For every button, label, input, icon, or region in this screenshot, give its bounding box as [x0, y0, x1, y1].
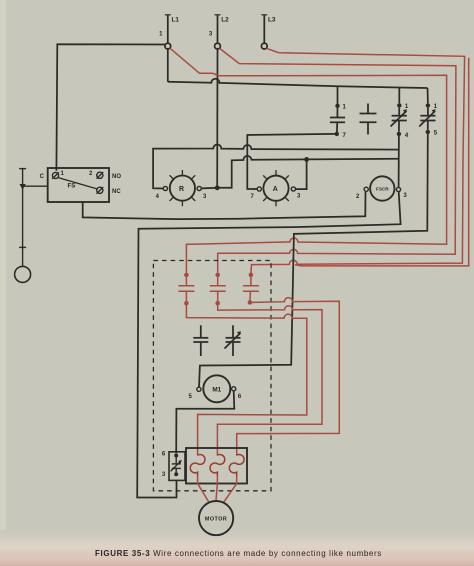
float bulb: [15, 266, 31, 282]
junction node R3-L2: [215, 185, 220, 190]
svg-text:M1: M1: [212, 386, 221, 393]
wire red from L3 to right rail 3: [251, 48, 465, 273]
wire A pin 7 up and over to capacitor pin 7: [247, 134, 336, 189]
junction node A3: [304, 157, 309, 162]
svg-text:FSCR: FSCR: [376, 186, 389, 191]
svg-text:A: A: [273, 186, 278, 193]
wire A pin 3 up to 3-bus: [296, 159, 307, 189]
wire FS bottom to FSCR pin 2: [83, 192, 366, 219]
wire FSCR pin 3 down-left to overload pin 3: [137, 192, 400, 498]
contactor box: [186, 448, 247, 484]
wire from L1 pin 1 to FS terminal 1: [56, 44, 165, 171]
terminal L1: [165, 15, 171, 82]
wire red from L1 to right rail 1: [170, 48, 447, 273]
wire capacitor pin 5 down to M1 pin 5: [199, 134, 428, 387]
relay FSCR: [364, 176, 401, 200]
svg-text:MOTOR: MOTOR: [205, 517, 227, 523]
FS screw terminal NO: [97, 172, 104, 179]
dashed enclosure box: [153, 261, 271, 491]
svg-text:L1: L1: [172, 17, 180, 24]
svg-text:R: R: [179, 186, 184, 193]
rotary switch R: [163, 170, 201, 206]
terminal L2: [215, 15, 221, 49]
wire red CA bottom to contactor coil 1: [186, 303, 306, 455]
contactor coil M1: [197, 375, 236, 402]
contactor heater coil 2: [210, 455, 225, 476]
FS switch blade: [58, 178, 97, 189]
black capacitor CF (floating): [193, 325, 208, 356]
red capacitor CB: [210, 275, 226, 303]
wire R pin 4 up and over to capacitor pin 4: [153, 145, 399, 189]
capacitor C1 (fixed, pins 1-7): [330, 86, 345, 132]
overload block: [169, 452, 185, 481]
svg-text:L2: L2: [221, 17, 229, 24]
capacitor C4 (variable, pins 1-5): [419, 88, 435, 130]
red capacitor CA (pins via red wires): [178, 275, 194, 303]
svg-text:NO: NO: [112, 174, 121, 180]
capacitor C3 (variable, pins 1-4): [391, 88, 407, 132]
wire 3-bus from junction to FSCR pin 3: [217, 156, 399, 188]
float switch FS box: [48, 168, 109, 202]
wires coils to motor: [198, 476, 237, 503]
contactor heater coil 3: [229, 455, 244, 476]
contactor heater coil 1: [190, 455, 205, 476]
wire red from L2 to right rail 2: [218, 48, 456, 272]
arrow at C branch: [19, 184, 25, 190]
svg-text:FS: FS: [68, 183, 76, 190]
wire R pin 3 to L2 junction: [201, 187, 215, 190]
FS screw terminal NC: [97, 187, 104, 194]
wire float switch common with top tick: [19, 169, 48, 267]
rotary switch A: [257, 170, 295, 206]
wire M1 pin 6 down to overload pin 6: [176, 391, 234, 453]
FS screw terminal 1: [52, 172, 59, 179]
wire red rail 4 outermost: [295, 58, 469, 266]
svg-text:C: C: [40, 174, 45, 180]
wire red CB bottom to contactor coil 2: [217, 303, 322, 455]
black capacitor CV (floating variable): [225, 325, 241, 356]
wire L2 vertical down to R junction: [216, 49, 218, 186]
terminal L3: [261, 15, 267, 49]
wire red CC bottom to contactor coil 3: [237, 298, 340, 456]
svg-text:L3: L3: [268, 17, 276, 24]
svg-text:NC: NC: [112, 189, 121, 195]
motor: [199, 501, 233, 535]
wire capacitor pin 4 down to FSCR pin 3: [398, 134, 400, 187]
svg-text:FIGURE 35-3 Wire connections a: FIGURE 35-3 Wire connections are made by…: [95, 549, 382, 558]
red capacitor CC: [243, 275, 259, 302]
capacitor C2 (floating symbol): [360, 104, 377, 135]
wire top bus from L1 down and right to capacitor bank: [168, 79, 428, 88]
